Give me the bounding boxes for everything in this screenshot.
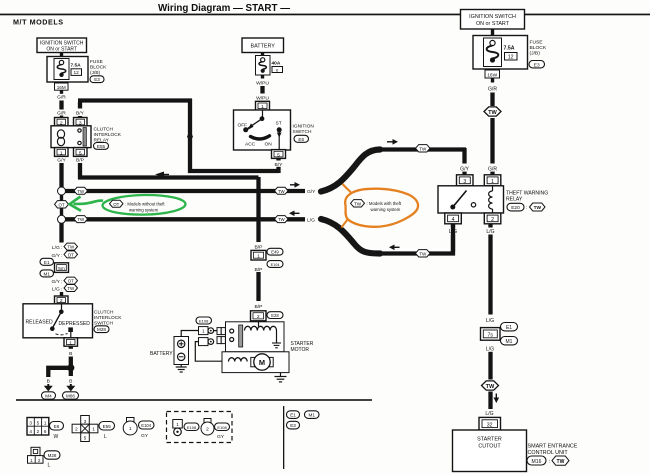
footer connector E104 face	[123, 418, 137, 436]
relay switch contact	[450, 191, 475, 210]
svg-text:TW: TW	[534, 205, 542, 211]
pin 1 (theft warning relay)	[484, 175, 501, 186]
svg-text:SMART ENTRANCE: SMART ENTRANCE	[528, 444, 578, 450]
ground name M4 oval	[42, 392, 56, 399]
fuse block J/B box (right)	[473, 36, 528, 70]
svg-text:TW: TW	[486, 384, 495, 390]
svg-text:M66: M66	[66, 394, 75, 399]
connector E49 oval	[267, 248, 283, 255]
svg-text:RELEASED: RELEASED	[26, 320, 53, 326]
svg-text:7.5A: 7.5A	[71, 63, 82, 69]
wire down to relay pin 3	[462, 148, 466, 164]
clutch interlock relay U box	[51, 126, 91, 148]
wire branch left	[48, 368, 71, 377]
fuse number 12 box	[71, 69, 82, 76]
svg-text:E104: E104	[141, 423, 151, 428]
relay coil	[57, 130, 64, 146]
svg-text:6: 6	[44, 429, 47, 434]
rotor arm arrowhead	[248, 123, 254, 130]
svg-text:TW: TW	[278, 189, 286, 194]
wire B/Y pin5 to horizontal	[276, 158, 280, 160]
arrow down beside wire	[494, 394, 500, 404]
battery minus terminal	[178, 353, 185, 360]
node OT hexagon on wire	[55, 201, 69, 208]
ST contact	[277, 127, 282, 132]
connector E24 oval	[267, 261, 283, 268]
svg-text::: :	[526, 206, 527, 211]
wire bottom swoosh horizontal	[376, 251, 455, 255]
orange annotation loop	[345, 189, 418, 227]
fusible link 40A box	[256, 56, 271, 76]
svg-text:B/P: B/P	[255, 267, 263, 273]
wire	[60, 208, 63, 217]
svg-text:3: 3	[84, 419, 87, 424]
tag TW hexagon bold (right fuse)	[484, 107, 501, 116]
svg-text:M1: M1	[309, 413, 316, 418]
svg-text:L/G: L/G	[449, 229, 457, 235]
DEPRESSED contact	[68, 327, 73, 332]
wire	[462, 172, 466, 176]
svg-text:E6: E6	[54, 424, 60, 429]
svg-text:G/Y: G/Y	[57, 158, 66, 164]
connector M28 oval	[94, 326, 109, 333]
svg-text:3: 3	[29, 421, 32, 426]
svg-text:7.5A: 7.5A	[504, 45, 515, 51]
wire B/P vertical to starter	[256, 177, 260, 242]
wire	[491, 29, 494, 36]
svg-text:1: 1	[491, 179, 494, 185]
svg-text:G/R: G/R	[488, 86, 497, 92]
wire label L/G : TW (lower)	[52, 285, 78, 293]
contact stem	[70, 332, 72, 338]
svg-text:L/G: L/G	[486, 318, 494, 324]
pin 3 (theft warning relay)	[457, 175, 474, 186]
connector M16 oval	[527, 456, 546, 465]
starter terminal lugs lower	[217, 337, 225, 344]
svg-text:2: 2	[37, 429, 40, 434]
svg-text:E28: E28	[271, 313, 279, 318]
footer connector M28 face	[28, 447, 44, 463]
svg-text:L: L	[48, 463, 51, 469]
dashed travel arc	[56, 333, 68, 335]
svg-text:INTERLOCK: INTERLOCK	[94, 132, 122, 138]
wire	[60, 292, 63, 297]
arrow up on B/Y wire	[187, 129, 193, 138]
footer E1 oval	[287, 411, 300, 419]
svg-text:OT: OT	[113, 202, 119, 207]
svg-text:M16: M16	[532, 459, 542, 465]
wire	[60, 116, 63, 119]
svg-text:1: 1	[60, 150, 63, 156]
rotor arm	[247, 119, 263, 130]
pin 3 (clutch interlock relay)	[74, 118, 88, 127]
pin 2 (clutch interlock switch)	[55, 296, 69, 304]
wire G/Y from pin1 down	[59, 163, 63, 188]
footer M1 oval	[305, 411, 320, 419]
footer connector E108-1 oval	[184, 423, 199, 431]
svg-text:L/G: L/G	[485, 411, 493, 417]
svg-text:E6: E6	[298, 137, 304, 142]
fuse block J/B box (left)	[47, 57, 88, 83]
footer connector E55 oval	[99, 422, 115, 431]
ignition switch ON or START box (left)	[37, 38, 87, 53]
svg-text:M28: M28	[97, 327, 106, 332]
svg-text:12: 12	[74, 70, 80, 76]
svg-text:12: 12	[508, 54, 514, 60]
svg-text:E1: E1	[290, 413, 296, 418]
svg-text:TW: TW	[278, 217, 286, 222]
pin 4 (theft warning relay)	[445, 213, 462, 224]
svg-text:7s: 7s	[488, 333, 494, 339]
svg-text:5: 5	[84, 436, 87, 441]
svg-text:DEPRESSED: DEPRESSED	[59, 321, 91, 327]
starter motor lower box	[222, 352, 289, 373]
wire G/Y row horizontal	[65, 189, 305, 193]
wire	[490, 172, 494, 176]
green annotation arrow	[70, 197, 104, 211]
wire	[488, 392, 492, 410]
pin 2 (theft warning relay)	[484, 213, 501, 224]
svg-text:OT: OT	[68, 279, 74, 284]
footer connector E108-2 oval	[215, 423, 230, 431]
wire B/P	[256, 272, 260, 301]
arrow left on B/P wire	[155, 172, 164, 178]
svg-text:: Models with theft: : Models with theft	[367, 201, 402, 206]
svg-text:BATTERY: BATTERY	[251, 44, 276, 50]
svg-text:B/P: B/P	[76, 158, 84, 164]
svg-text:5: 5	[277, 152, 280, 158]
svg-text:1: 1	[30, 458, 33, 463]
svg-text:G/Y :: G/Y :	[51, 279, 62, 285]
wire	[261, 53, 264, 57]
J/B connector 16M box	[55, 83, 69, 90]
connector E28 oval	[267, 312, 283, 319]
connector E6 oval	[294, 135, 309, 142]
svg-text:BLOCK: BLOCK	[90, 65, 107, 71]
svg-text:4: 4	[29, 429, 32, 434]
svg-text:(J/B): (J/B)	[90, 70, 101, 76]
wire	[60, 53, 63, 58]
wire up to relay pin 4	[451, 224, 455, 256]
ignition switch ON or START box (right)	[461, 10, 525, 30]
svg-text:E104: E104	[271, 263, 280, 267]
orange loop bottom tail	[342, 219, 349, 228]
motor ground	[275, 373, 287, 382]
svg-text:CLUTCH: CLUTCH	[94, 127, 114, 133]
svg-text:GY: GY	[141, 433, 149, 439]
solenoid coil	[245, 326, 277, 330]
green annotation ellipse	[102, 194, 185, 215]
solenoid internal ground	[272, 331, 281, 348]
svg-text:MOTOR: MOTOR	[291, 347, 310, 353]
svg-text:M1: M1	[44, 271, 51, 276]
svg-text:2: 2	[38, 458, 41, 463]
svg-text:B: B	[69, 351, 72, 357]
connector 5M box	[55, 263, 69, 273]
svg-text:CLUTCH: CLUTCH	[94, 310, 114, 316]
J/B connector 16W box	[485, 70, 500, 78]
svg-text:TW: TW	[354, 202, 362, 207]
relay contact	[78, 128, 87, 147]
svg-text:CONTROL UNIT: CONTROL UNIT	[528, 450, 569, 456]
tag TW hexagon (L/G row right)	[275, 216, 289, 223]
footer vertical divider	[283, 406, 284, 469]
switch pivot contact	[59, 310, 64, 315]
solenoid plunger bar	[239, 325, 243, 347]
wire	[491, 78, 494, 83]
svg-text:TW: TW	[488, 110, 497, 116]
wire label L/G : TW	[52, 243, 78, 251]
svg-text:ACC: ACC	[245, 142, 256, 148]
svg-text:E108: E108	[187, 425, 197, 430]
wire connector to lug	[214, 330, 217, 332]
footer dashed option box	[167, 412, 233, 443]
svg-text:E108: E108	[199, 318, 209, 323]
svg-text:BATTERY: BATTERY	[150, 351, 173, 357]
rotor contact	[260, 116, 265, 121]
svg-text:5: 5	[37, 421, 40, 426]
svg-text:TW: TW	[77, 189, 85, 194]
svg-text:TW: TW	[419, 147, 427, 152]
wire	[490, 93, 494, 107]
svg-text:warning system: warning system	[371, 207, 401, 212]
CLUTCH INTERLOCK SWITCH label	[94, 310, 122, 327]
wire motor cable	[195, 342, 222, 362]
wire top swoosh horizontal	[376, 147, 466, 151]
tag TW hexagon (right of G/Y row)	[275, 187, 289, 194]
svg-text:2: 2	[75, 427, 78, 432]
svg-text:L: L	[104, 434, 107, 440]
svg-text:TW: TW	[557, 459, 565, 465]
solenoid contacts	[230, 329, 234, 342]
wire swoosh G/Y to theft relay	[321, 150, 380, 192]
detent arc	[251, 136, 270, 139]
wire pivot stub	[61, 304, 63, 310]
pin 5 (ignition switch)	[272, 150, 286, 159]
STARTER MOTOR label	[291, 341, 314, 353]
svg-text:Wiring Diagram — START —: Wiring Diagram — START —	[158, 3, 290, 14]
svg-text:1: 1	[69, 340, 72, 346]
svg-text:TW: TW	[419, 252, 427, 257]
svg-text:ON or START: ON or START	[476, 21, 510, 27]
svg-text:E1: E1	[506, 325, 512, 331]
svg-text:IGNITION: IGNITION	[293, 124, 315, 130]
svg-text:B: B	[69, 379, 72, 385]
svg-text:OFF: OFF	[238, 123, 248, 129]
connector E1 oval (right)	[501, 323, 518, 331]
wire	[60, 195, 63, 202]
starter cutout box	[453, 430, 527, 472]
body ground M4 arrow	[44, 384, 53, 391]
svg-text:3: 3	[463, 179, 466, 185]
svg-text:2: 2	[491, 217, 494, 223]
wire label G/Y : OT (lower)	[51, 277, 77, 285]
wire B/Y horizontal to ignition switch	[188, 169, 279, 173]
ground name M66 oval	[63, 392, 79, 399]
CLUTCH INTERLOCK RELAY label	[94, 127, 122, 144]
tag TW hexagon	[74, 187, 88, 194]
svg-text:E3: E3	[94, 77, 100, 82]
pin 1 (ignition switch)	[256, 101, 270, 110]
switch arm to RELEASED	[52, 312, 61, 329]
svg-text:TW: TW	[77, 217, 85, 222]
junction node (L/G row)	[58, 215, 66, 223]
wire B/Y vertical x190	[188, 99, 192, 173]
wire	[490, 118, 494, 164]
wire swoosh L/G to theft relay	[321, 219, 380, 254]
ST wire to pin 5	[278, 130, 280, 150]
svg-text:B/P: B/P	[255, 244, 263, 250]
wire label G/Y : OT	[51, 251, 77, 259]
svg-text:1: 1	[44, 421, 47, 426]
wire G/R	[59, 101, 63, 110]
wire B down	[69, 346, 73, 349]
wire	[488, 352, 492, 380]
THEFT WARNING RELAY label	[506, 191, 548, 203]
wire L/G row horizontal	[65, 217, 305, 221]
inline connector (motor cable)	[199, 338, 214, 346]
tag TW hexagon bold (lower right)	[482, 381, 499, 390]
junction dot	[67, 364, 74, 371]
wire B/P from pin5 down	[78, 163, 82, 179]
svg-text:G/Y :: G/Y :	[51, 253, 62, 259]
footer connector E108-2 face	[201, 419, 214, 436]
svg-text:L/G: L/G	[307, 217, 315, 223]
FUSE BLOCK (J/B) label (right)	[530, 39, 547, 56]
svg-text:1: 1	[176, 422, 179, 427]
svg-text:L/G: L/G	[486, 347, 494, 353]
svg-text:OT: OT	[58, 202, 64, 207]
svg-text:B: B	[47, 379, 50, 385]
relay coil (theft)	[489, 186, 493, 213]
svg-text:IGNITION SWITCH: IGNITION SWITCH	[469, 14, 516, 20]
theft warning relay box	[438, 186, 504, 213]
SMART ENTRANCE CONTROL UNIT label	[528, 444, 578, 457]
inline connector 1 (B/P)	[251, 250, 266, 260]
svg-text:OT: OT	[68, 253, 74, 258]
svg-text:M28: M28	[48, 453, 57, 458]
footer connector E108-1 face	[173, 420, 183, 436]
wire B/Y relay pin3 up	[78, 102, 82, 109]
svg-text:E20: E20	[511, 205, 520, 211]
svg-text:ST: ST	[276, 121, 282, 127]
svg-text:E3: E3	[290, 423, 296, 428]
connector E108 oval	[196, 317, 212, 324]
inline connector 1 (battery cable)	[199, 327, 214, 335]
svg-text:W/PU: W/PU	[256, 95, 269, 101]
starter terminal lugs upper	[217, 328, 225, 335]
svg-text:ON or START: ON or START	[46, 47, 77, 53]
fuse F12 (right)	[487, 40, 499, 62]
fuse number 12 box	[505, 53, 518, 61]
svg-text::: :	[549, 459, 550, 465]
svg-text:1: 1	[257, 254, 260, 260]
svg-text:BLOCK: BLOCK	[530, 45, 547, 51]
svg-text:E1: E1	[44, 260, 50, 265]
svg-text:SWITCH: SWITCH	[293, 129, 312, 135]
motor M symbol	[251, 354, 273, 370]
wire pin4 down	[451, 224, 455, 228]
svg-text:5m: 5m	[58, 266, 65, 271]
footer separator line	[16, 399, 372, 401]
green note OT hexagon	[110, 200, 124, 207]
svg-text:GY: GY	[217, 434, 225, 440]
svg-text:E49: E49	[271, 250, 279, 255]
connector M1 oval	[40, 270, 54, 277]
svg-text:M4: M4	[45, 394, 52, 399]
battery box (top)	[242, 38, 284, 53]
motor series coil	[229, 358, 248, 362]
arrow left on bottom swoosh	[389, 245, 395, 251]
footer connector E55 face (cross)	[72, 416, 98, 442]
solenoid coil lead	[258, 322, 260, 327]
footer connector M28 oval	[44, 451, 60, 459]
connector M1 oval (right)	[501, 337, 518, 345]
OFF contact	[243, 127, 248, 132]
svg-text:G/R: G/R	[57, 95, 66, 101]
wire pin2 long	[488, 235, 492, 315]
svg-text:2: 2	[257, 314, 260, 320]
body ground M66 arrow	[66, 384, 75, 391]
svg-text:E108: E108	[217, 425, 227, 430]
svg-text:L/G :: L/G :	[52, 286, 63, 292]
svg-text:STARTER: STARTER	[477, 436, 502, 442]
pin 1 (clutch interlock relay)	[55, 148, 69, 157]
svg-text:32: 32	[487, 422, 493, 428]
arrow right on top swoosh	[387, 141, 393, 143]
svg-text:L/G: L/G	[486, 229, 494, 235]
wire	[260, 86, 264, 94]
IGNITION SWITCH label	[293, 124, 315, 136]
connector 7s box	[481, 328, 501, 341]
svg-text:RELAY: RELAY	[506, 197, 523, 203]
pin 32 (smart entrance control unit)	[479, 417, 501, 430]
arrow down on ST wire	[277, 133, 282, 138]
arrow left on L/G row	[289, 211, 295, 217]
svg-text:1: 1	[92, 427, 95, 432]
svg-text:(J/B): (J/B)	[530, 51, 541, 57]
tag TW hexagon (M16)	[552, 456, 569, 465]
svg-text:B/Y: B/Y	[76, 111, 85, 117]
orange note TW hexagon	[351, 200, 365, 207]
svg-text:W: W	[54, 434, 59, 440]
svg-text:5: 5	[79, 150, 82, 156]
svg-text:B/P: B/P	[255, 304, 263, 310]
svg-text:W/PU: W/PU	[256, 80, 269, 86]
footer connector E6 oval	[50, 422, 64, 431]
wire	[261, 75, 264, 79]
ignition switch box	[234, 110, 291, 150]
clutch interlock switch box	[23, 304, 93, 338]
orange loop top tail	[343, 184, 352, 193]
svg-text:2: 2	[206, 427, 209, 433]
svg-text:INTERLOCK: INTERLOCK	[94, 315, 122, 321]
svg-text:M1: M1	[506, 339, 513, 345]
connector E20 oval	[507, 203, 524, 211]
pin 2 (clutch interlock relay)	[55, 118, 69, 127]
wire B/P horizontal	[78, 175, 259, 179]
svg-text:G/Y: G/Y	[307, 189, 316, 195]
pin 2 (starter motor)	[251, 311, 267, 321]
junction node (G/Y row)	[58, 187, 66, 195]
wire battery to starter	[181, 331, 198, 337]
battery plus terminal	[178, 340, 185, 347]
footer connector E6 face	[27, 418, 49, 436]
svg-text:ON: ON	[265, 142, 273, 148]
footer E3 oval	[287, 421, 300, 429]
svg-text:E3: E3	[534, 62, 540, 68]
wire B/Y horizontal top	[78, 98, 192, 102]
